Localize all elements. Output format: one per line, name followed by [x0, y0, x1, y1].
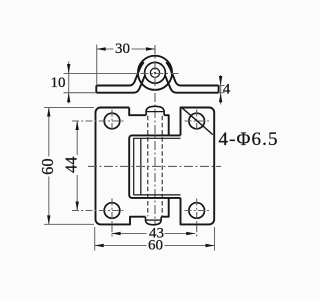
- leader line to hole label: [181, 107, 213, 134]
- dimension 60 bottom lines: [95, 227, 215, 251]
- bottom pin cap flange line: [146, 219, 162, 221]
- dimension 4 arrows: [219, 76, 222, 102]
- dimension 43 arrows: [112, 232, 196, 235]
- svg-text:30: 30: [115, 41, 130, 57]
- dimension 44 lines: [76, 121, 78, 211]
- dimension 30 lines: [97, 45, 155, 86]
- svg-text:4-Φ6.5: 4-Φ6.5: [219, 129, 279, 150]
- pin hidden line left: [147, 116, 149, 217]
- middle knuckle inner contour: [134, 138, 181, 195]
- dimension 60 left lines: [44, 108, 94, 225]
- middle knuckle outer contour: [129, 135, 180, 198]
- front view plate outline: [96, 108, 215, 225]
- middle knuckle cylinder edge line: [140, 138, 142, 195]
- dimension 60 bottom arrows: [95, 244, 215, 247]
- boss outer circle: [138, 56, 172, 90]
- hole top-left crosshair: [72, 110, 125, 133]
- dimension 44 arrows: [76, 121, 79, 211]
- svg-text:4: 4: [223, 82, 231, 98]
- hole bottom-left crosshair: [72, 199, 125, 239]
- dimension 10 arrows: [67, 64, 70, 102]
- top pin cap flange line: [146, 111, 164, 113]
- dimension 30 arrows: [97, 47, 155, 50]
- boss pin hole circle: [150, 68, 159, 77]
- top view strip left flat and ramp: [96, 62, 145, 92]
- top view strip right flat and ramp: [165, 62, 219, 92]
- pin hidden line right: [161, 116, 163, 217]
- plate horizontal centerline: [88, 165, 221, 167]
- vertical centerline through boss and front view: [154, 45, 156, 224]
- hole bottom-right: [189, 203, 205, 219]
- hole bottom-left: [104, 203, 120, 219]
- hole top-right: [189, 113, 205, 129]
- bottom pin cap: [146, 217, 162, 225]
- hole top-left: [104, 113, 120, 129]
- hole bottom-right crosshair: [185, 199, 210, 239]
- svg-text:60: 60: [148, 238, 163, 254]
- svg-text:60: 60: [38, 158, 57, 175]
- dimension 60 left arrows: [47, 108, 50, 225]
- hole top-right crosshair: [185, 110, 210, 133]
- top pin cap: [146, 106, 164, 115]
- boss horizontal centerline: [141, 73, 181, 75]
- svg-text:44: 44: [62, 157, 81, 174]
- dimension 10 lines: [64, 62, 139, 104]
- boss middle circle: [145, 62, 166, 83]
- dimension 43 lines: [112, 233, 196, 235]
- boss center dot: [154, 72, 156, 74]
- svg-text:10: 10: [51, 75, 66, 91]
- dimension 4 lines: [219, 75, 225, 105]
